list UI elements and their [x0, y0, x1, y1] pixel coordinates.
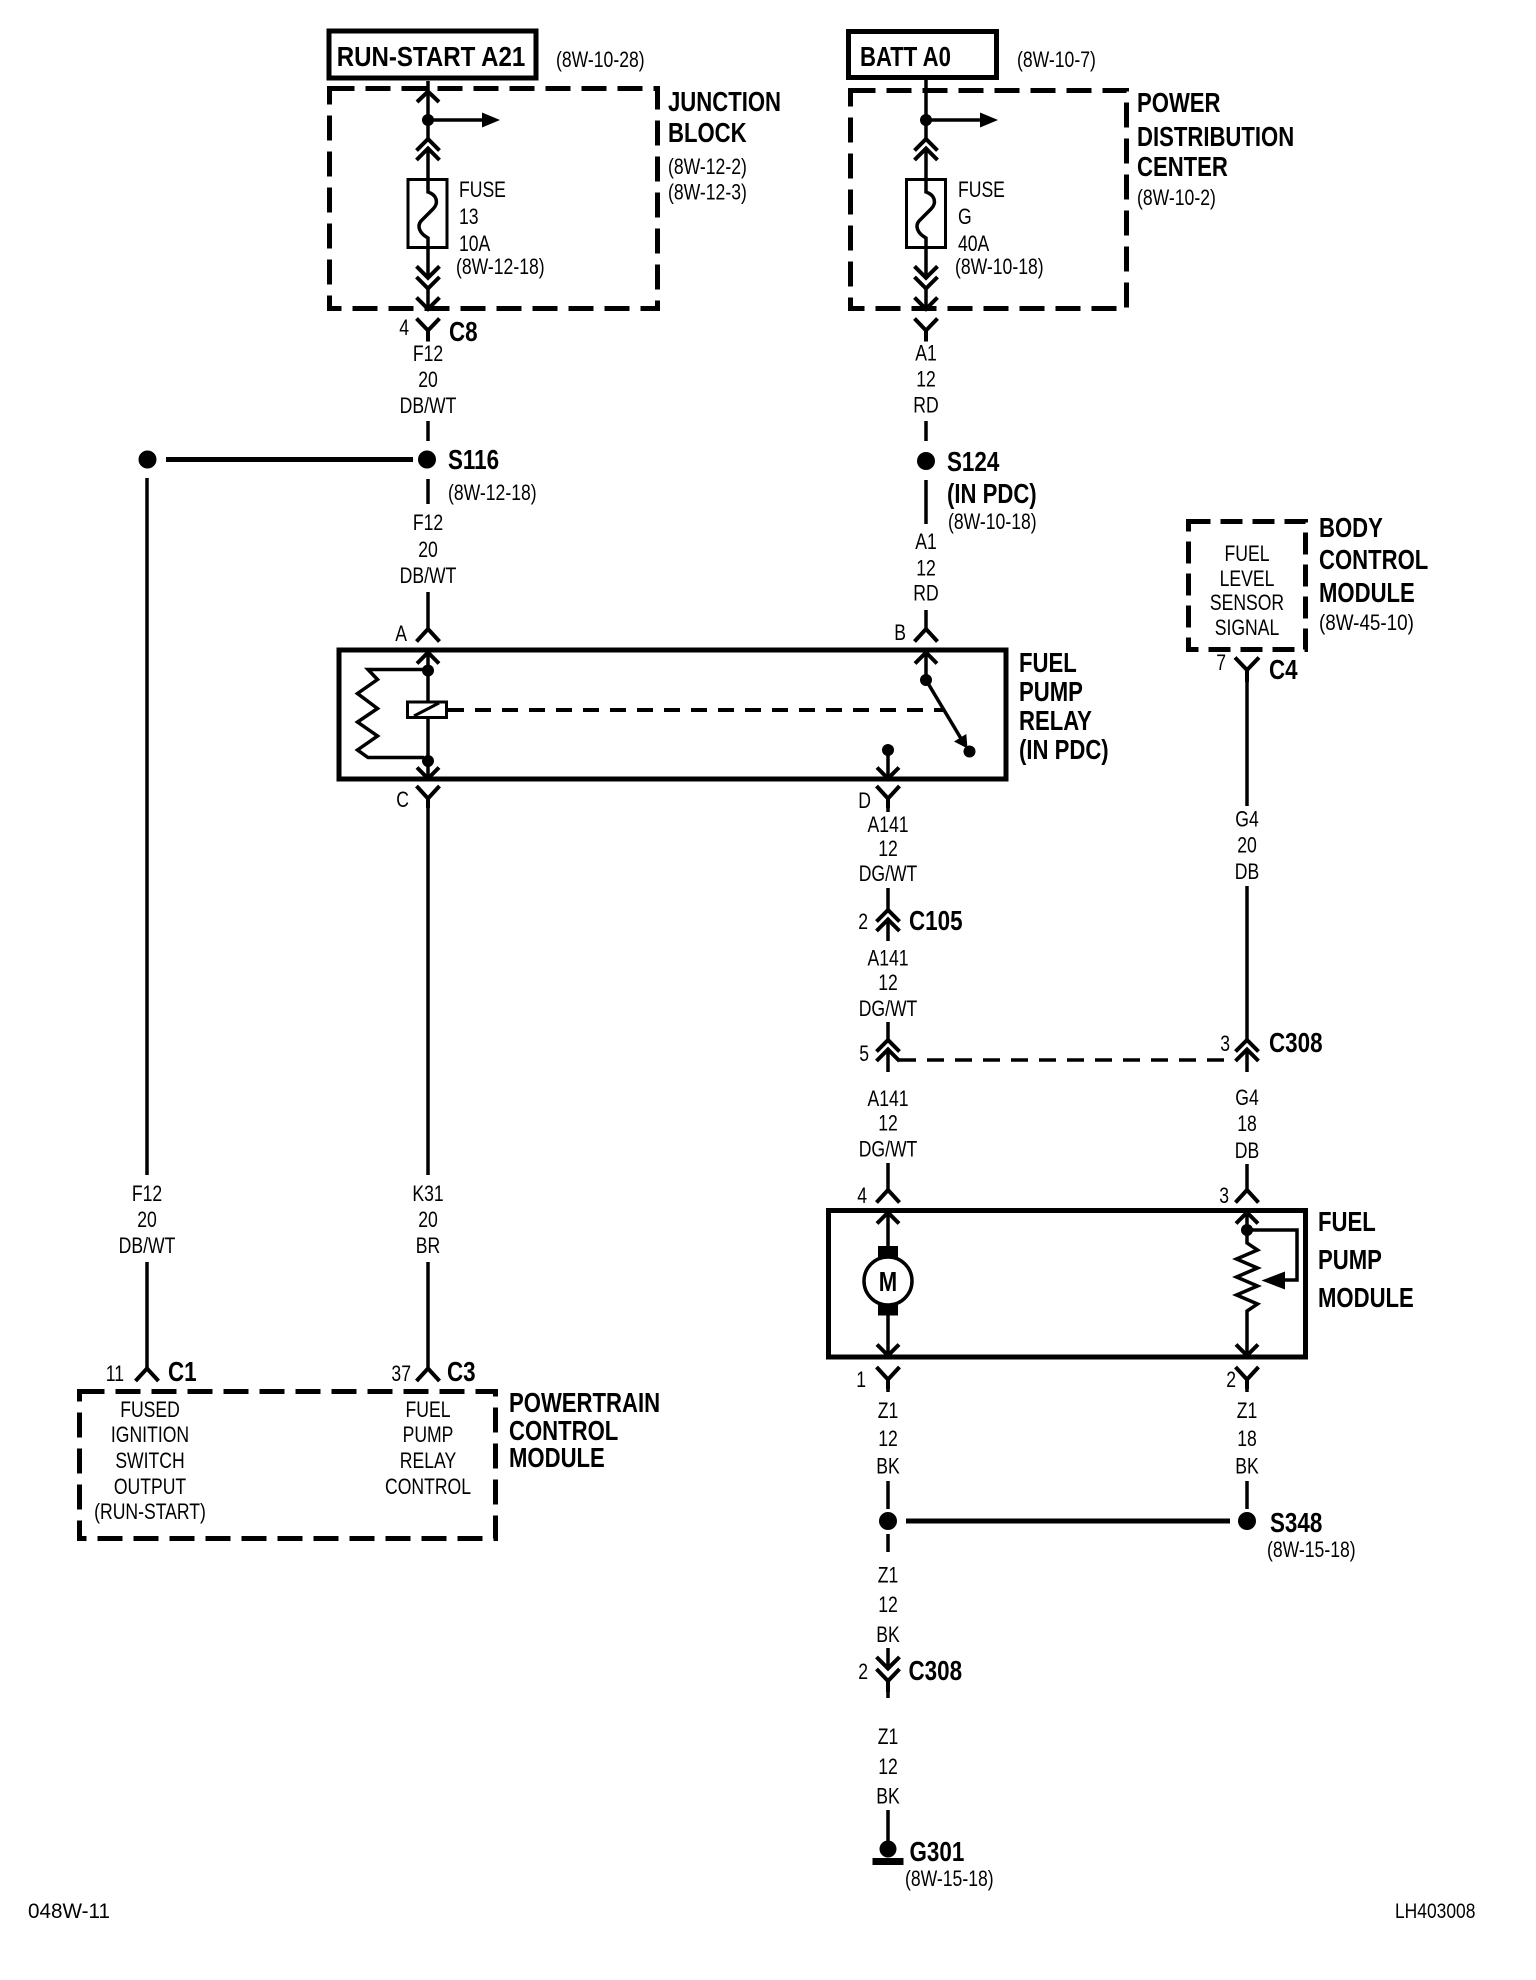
- fuel level sensor node dot: [1241, 1224, 1253, 1236]
- wire connector 5 to FPM pin 4: [886, 1065, 890, 1190]
- svg-text:DG/WT: DG/WT: [859, 1138, 918, 1162]
- connector 2 C308 inline: [877, 1657, 900, 1692]
- svg-text:A1: A1: [915, 530, 937, 554]
- svg-text:2: 2: [858, 1660, 868, 1684]
- branch arrow right (PDC): [926, 113, 998, 128]
- svg-text:Z1: Z1: [878, 1399, 899, 1423]
- connector 3 C308 inline: [1236, 1040, 1259, 1065]
- svg-text:20: 20: [418, 368, 438, 392]
- svg-text:FUEL: FUEL: [1019, 648, 1077, 679]
- svg-text:RELAY: RELAY: [400, 1449, 456, 1473]
- svg-text:FUSE: FUSE: [459, 178, 506, 202]
- splice S124 dot: [917, 452, 935, 470]
- wire C308 to G301: [886, 1692, 890, 1841]
- svg-text:FUSED: FUSED: [120, 1398, 180, 1422]
- pin 7 of C4: [1216, 651, 1226, 675]
- wire label K31 20 BR: [412, 1182, 443, 1258]
- wire fuse G to PDC exit: [924, 248, 928, 309]
- male chevron into junction block: [417, 92, 439, 103]
- connector name C4: [1269, 655, 1298, 686]
- svg-text:37: 37: [391, 1362, 411, 1386]
- svg-text:11: 11: [106, 1362, 124, 1386]
- svg-text:C8: C8: [449, 317, 478, 348]
- wire label A1 12 RD (lower): [913, 530, 938, 606]
- svg-text:A141: A141: [867, 1087, 908, 1111]
- fuel level sensor resistor: [1237, 1230, 1258, 1317]
- wire C4 to C308: [1245, 682, 1249, 1040]
- power distribution center box: [851, 91, 1127, 309]
- fuse 13: [408, 180, 447, 249]
- wire S124 to relay pin B: [924, 480, 928, 629]
- svg-text:(8W-45-10): (8W-45-10): [1319, 611, 1414, 636]
- connector box BATT A0: [849, 32, 997, 78]
- svg-text:G4: G4: [1235, 1086, 1258, 1110]
- wire label F12 20 DB/WT (upper): [400, 342, 457, 418]
- wire label Z1 12 BK (2): [876, 1564, 900, 1648]
- fuse G labels: [955, 178, 1044, 279]
- wire label G4 18 DB: [1235, 1086, 1259, 1163]
- svg-text:S116: S116: [448, 445, 499, 476]
- wire FPM 2 to S348: [1245, 1389, 1249, 1509]
- splice S116: [139, 451, 437, 469]
- svg-text:C105: C105: [909, 906, 963, 937]
- connector C8 female fork: [417, 319, 440, 342]
- pin 2 label (FPM): [1226, 1368, 1236, 1392]
- svg-text:BK: BK: [876, 1785, 900, 1809]
- pin 2 of C308 (bottom): [858, 1660, 868, 1684]
- svg-text:A: A: [395, 622, 407, 646]
- svg-text:M: M: [879, 1267, 897, 1298]
- connector name C3: [447, 1357, 476, 1388]
- svg-text:12: 12: [916, 557, 936, 581]
- relay pin C female fork: [417, 786, 440, 808]
- svg-text:F12: F12: [132, 1182, 162, 1206]
- svg-text:(8W-15-18): (8W-15-18): [905, 1867, 994, 1891]
- svg-text:(8W-12-18): (8W-12-18): [456, 255, 545, 279]
- svg-text:RELAY: RELAY: [1019, 706, 1092, 737]
- svg-text:Z1: Z1: [1237, 1399, 1258, 1423]
- pin 37 of C3: [391, 1362, 411, 1386]
- pin 4 label (FPM): [857, 1184, 867, 1208]
- svg-text:20: 20: [418, 1208, 438, 1232]
- relay switch contact dot: [964, 746, 976, 758]
- svg-text:PUMP: PUMP: [403, 1423, 454, 1447]
- svg-text:SWITCH: SWITCH: [115, 1449, 184, 1473]
- connector C4 female fork: [1235, 658, 1259, 683]
- fuse 13 labels: [456, 178, 545, 279]
- relay control dashed line: [448, 708, 943, 712]
- svg-text:RD: RD: [913, 394, 938, 418]
- svg-text:DB/WT: DB/WT: [400, 394, 457, 418]
- header POWER DISTRIBUTION CENTER: [1137, 88, 1294, 211]
- svg-text:10A: 10A: [459, 232, 491, 256]
- svg-text:C308: C308: [1269, 1028, 1323, 1059]
- wire label A1 12 RD (upper): [913, 342, 938, 418]
- svg-text:3: 3: [1219, 1184, 1229, 1208]
- svg-text:5: 5: [859, 1042, 869, 1066]
- wire label Z1 18 BK: [1235, 1399, 1259, 1479]
- svg-text:(8W-15-18): (8W-15-18): [1267, 1538, 1356, 1562]
- connector C1 female fork: [136, 1369, 159, 1382]
- relay pin B male chevron: [915, 653, 937, 676]
- svg-text:C3: C3: [447, 1357, 476, 1388]
- connector C105 inline: [877, 910, 900, 935]
- wire label F12 20 DB/WT (lower): [400, 511, 457, 588]
- wire S116 to C1: [145, 478, 149, 1369]
- svg-text:(8W-10-18): (8W-10-18): [955, 255, 1044, 279]
- header BODY CONTROL MODULE: [1319, 513, 1428, 636]
- header FUEL PUMP MODULE: [1318, 1207, 1414, 1314]
- svg-text:12: 12: [878, 1427, 898, 1451]
- motor M1 bottom brush: [878, 1304, 898, 1316]
- connector name C308 (mid): [1269, 1028, 1323, 1059]
- svg-text:Z1: Z1: [878, 1564, 899, 1588]
- pin A label: [395, 622, 407, 646]
- svg-text:F12: F12: [413, 342, 443, 366]
- wire A21 to fuse 13: [426, 81, 430, 181]
- wire S348 down: [886, 1534, 890, 1666]
- svg-text:S348: S348: [1270, 1508, 1322, 1539]
- wire label A141 12 DG/WT (3): [859, 1087, 918, 1162]
- relay pin D male chevron: [877, 753, 899, 779]
- wire S116 to relay pin A: [426, 479, 430, 629]
- relay coil bottom node dot: [422, 755, 434, 767]
- svg-text:20: 20: [1237, 834, 1257, 858]
- label S348: [1267, 1508, 1356, 1563]
- svg-text:A141: A141: [867, 947, 908, 971]
- svg-text:IGNITION: IGNITION: [111, 1423, 189, 1447]
- header JUNCTION BLOCK: [668, 87, 781, 205]
- svg-text:1: 1: [856, 1368, 866, 1392]
- svg-text:RUN-START A21: RUN-START A21: [337, 40, 526, 72]
- svg-text:PUMP: PUMP: [1318, 1245, 1382, 1276]
- header FUEL PUMP RELAY (IN PDC): [1019, 648, 1109, 766]
- wire label Z1 12 BK (3): [876, 1725, 900, 1809]
- label (8W-10-7): [1017, 48, 1096, 72]
- svg-text:B: B: [894, 621, 906, 645]
- junction block box: [330, 89, 658, 309]
- pin 3 of C308: [1220, 1032, 1230, 1056]
- svg-text:(8W-12-3): (8W-12-3): [668, 181, 747, 205]
- relay switch pivot dot: [920, 674, 932, 686]
- pin 4 of C8: [399, 316, 409, 340]
- relay coil symbol: [408, 702, 447, 718]
- wire BATT A0 to fuse G: [924, 80, 928, 181]
- connector name C105: [909, 906, 963, 937]
- svg-text:18: 18: [1237, 1427, 1257, 1451]
- svg-text:DG/WT: DG/WT: [859, 997, 918, 1021]
- PDC exit female fork: [915, 319, 938, 342]
- relay pin A female fork: [417, 629, 440, 642]
- svg-text:BR: BR: [416, 1234, 440, 1258]
- connector name C8: [449, 317, 478, 348]
- svg-text:2: 2: [1226, 1368, 1236, 1392]
- pin 11 of C1: [106, 1362, 124, 1386]
- svg-text:K31: K31: [412, 1182, 443, 1206]
- relay pin C male chevron: [417, 764, 439, 779]
- relay pin D female fork: [877, 786, 900, 808]
- svg-text:RD: RD: [913, 582, 938, 606]
- wire C8 to S116: [426, 421, 430, 441]
- pin D label: [858, 789, 871, 813]
- motor M1 label: [879, 1267, 897, 1298]
- svg-text:OUTPUT: OUTPUT: [114, 1475, 186, 1499]
- svg-text:DB: DB: [1235, 860, 1259, 884]
- wire PDC to S124: [924, 421, 928, 441]
- wire label Z1 12 BK (1): [876, 1399, 900, 1479]
- label S116: [448, 445, 537, 506]
- svg-text:12: 12: [916, 368, 936, 392]
- header POWERTRAIN CONTROL MODULE: [509, 1388, 660, 1474]
- svg-text:JUNCTION: JUNCTION: [668, 87, 781, 118]
- label (8W-10-28): [556, 48, 645, 72]
- relay pin B female fork: [915, 629, 938, 642]
- svg-text:C: C: [396, 788, 409, 812]
- svg-text:20: 20: [137, 1208, 157, 1232]
- wire relay D to C105: [886, 808, 890, 910]
- svg-text:20: 20: [418, 538, 438, 562]
- junction node dot (PDC): [920, 114, 932, 126]
- svg-text:12: 12: [878, 1593, 898, 1617]
- svg-text:DB: DB: [1235, 1139, 1259, 1163]
- FPM pin 4 male chevron: [877, 1213, 899, 1248]
- svg-text:MODULE: MODULE: [509, 1443, 605, 1474]
- svg-text:(8W-10-2): (8W-10-2): [1137, 186, 1216, 210]
- dashed link C308: [899, 1058, 1225, 1062]
- svg-text:(8W-12-2): (8W-12-2): [668, 155, 747, 179]
- fuel level sensor wiper arrow: [1247, 1230, 1297, 1290]
- connector C8 male chevron: [417, 298, 440, 310]
- svg-text:13: 13: [459, 205, 479, 229]
- svg-text:A1: A1: [915, 342, 937, 366]
- inline connector above fuse 13: [417, 139, 440, 160]
- svg-text:BK: BK: [876, 1623, 900, 1647]
- svg-text:A141: A141: [867, 813, 908, 837]
- svg-text:12: 12: [878, 1755, 898, 1779]
- wire relay C to C3: [426, 808, 430, 1369]
- svg-text:G: G: [958, 205, 972, 229]
- wire motor to FPM pin 1: [877, 1316, 899, 1356]
- inline connector below fuse G: [915, 266, 938, 288]
- svg-text:(8W-12-18): (8W-12-18): [448, 481, 537, 505]
- svg-text:SENSOR: SENSOR: [1210, 591, 1284, 615]
- svg-text:C1: C1: [168, 1357, 197, 1388]
- splice S348: [879, 1512, 1256, 1530]
- motor M1 top brush: [878, 1246, 898, 1259]
- svg-text:(8W-10-18): (8W-10-18): [948, 510, 1037, 534]
- svg-text:7: 7: [1216, 651, 1226, 675]
- connector C3 female fork: [417, 1369, 440, 1382]
- svg-text:DISTRIBUTION: DISTRIBUTION: [1137, 122, 1294, 153]
- svg-text:LEVEL: LEVEL: [1220, 567, 1275, 591]
- wire label A141 12 DG/WT (1): [859, 813, 918, 886]
- svg-text:40A: 40A: [958, 232, 990, 256]
- relay switch arm: [926, 680, 968, 749]
- PDC exit male chevron: [915, 298, 938, 310]
- wire C308 to FPM pin 3: [1245, 1065, 1249, 1190]
- PCM pin function FUSED IGNITION SWITCH OUTPUT (RUN-START): [94, 1398, 206, 1524]
- svg-text:S124: S124: [947, 447, 999, 478]
- svg-text:2: 2: [858, 910, 868, 934]
- PCM pin function FUEL PUMP RELAY CONTROL: [385, 1398, 471, 1499]
- relay coil top node dot: [422, 665, 434, 677]
- relay pin A male chevron: [417, 653, 439, 667]
- svg-text:SIGNAL: SIGNAL: [1215, 616, 1280, 640]
- svg-text:(8W-10-28): (8W-10-28): [556, 48, 645, 72]
- svg-text:G4: G4: [1235, 808, 1258, 832]
- ground G301 symbol: [873, 1841, 904, 1866]
- powertrain control module box: [80, 1392, 496, 1539]
- svg-text:DG/WT: DG/WT: [859, 862, 918, 886]
- pin 2 of C105: [858, 910, 868, 934]
- svg-text:048W-11: 048W-11: [28, 1900, 110, 1923]
- pin C label: [396, 788, 409, 812]
- wire FPM 1 to S348: [886, 1389, 890, 1509]
- inline connector above fuse G: [915, 139, 938, 160]
- svg-text:(IN PDC): (IN PDC): [947, 479, 1037, 510]
- svg-text:G301: G301: [910, 1837, 965, 1868]
- connector box RUN-START A21: [329, 31, 536, 78]
- svg-text:POWERTRAIN: POWERTRAIN: [509, 1388, 660, 1419]
- svg-text:3: 3: [1220, 1032, 1230, 1056]
- svg-text:DB/WT: DB/WT: [400, 564, 457, 588]
- svg-text:FUEL: FUEL: [406, 1398, 451, 1422]
- svg-text:18: 18: [1237, 1112, 1257, 1136]
- svg-text:DB/WT: DB/WT: [119, 1234, 176, 1258]
- relay output node dot: [882, 744, 894, 756]
- svg-text:FUEL: FUEL: [1225, 542, 1270, 566]
- wire C105 to connector 5: [886, 935, 890, 1041]
- footer sheet number: [28, 1900, 110, 1923]
- pin 5 of C308: [859, 1042, 869, 1066]
- FPM pin 1 female fork: [877, 1367, 900, 1389]
- relay coil wire: [426, 671, 430, 762]
- svg-text:12: 12: [878, 837, 898, 861]
- svg-text:BK: BK: [1235, 1455, 1259, 1479]
- BCM pin function FUEL LEVEL SENSOR SIGNAL: [1210, 542, 1284, 640]
- wire label G4 20 DB: [1235, 808, 1259, 885]
- svg-text:D: D: [858, 789, 871, 813]
- svg-text:PUMP: PUMP: [1019, 677, 1083, 708]
- connector name C1: [168, 1357, 197, 1388]
- inline connector below fuse 13: [417, 266, 440, 288]
- svg-text:BK: BK: [876, 1455, 900, 1479]
- FPM pin 3 female fork: [1236, 1190, 1259, 1203]
- svg-text:(IN PDC): (IN PDC): [1019, 735, 1109, 766]
- pin 1 label: [856, 1368, 866, 1392]
- svg-text:C308: C308: [909, 1656, 963, 1687]
- body control module box: [1189, 522, 1306, 650]
- svg-text:4: 4: [399, 316, 409, 340]
- svg-text:MODULE: MODULE: [1318, 1283, 1414, 1314]
- svg-text:(RUN-START): (RUN-START): [94, 1500, 206, 1524]
- fuel pump module box: [829, 1211, 1306, 1358]
- svg-text:CONTROL: CONTROL: [385, 1475, 471, 1499]
- fuel pump relay box: [339, 650, 1006, 779]
- wire label A141 12 DG/WT (2): [859, 947, 918, 1022]
- FPM pin 3 male chevron: [1236, 1213, 1258, 1231]
- motor M1 body: [864, 1257, 912, 1305]
- connector name C308 (bottom): [909, 1656, 963, 1687]
- svg-text:POWER: POWER: [1137, 88, 1221, 119]
- footer drawing number: [1395, 1901, 1475, 1924]
- junction node dot: [422, 114, 434, 126]
- svg-text:CENTER: CENTER: [1137, 152, 1228, 183]
- svg-text:(8W-10-7): (8W-10-7): [1017, 48, 1096, 72]
- label G301: [905, 1837, 994, 1892]
- svg-text:FUSE: FUSE: [958, 178, 1005, 202]
- svg-text:BLOCK: BLOCK: [668, 118, 747, 149]
- svg-text:LH403008: LH403008: [1395, 1901, 1475, 1924]
- svg-text:12: 12: [878, 1112, 898, 1136]
- relay coil resistor: [358, 670, 425, 758]
- svg-text:FUEL: FUEL: [1318, 1207, 1376, 1238]
- svg-text:BATT A0: BATT A0: [860, 42, 951, 73]
- svg-text:BODY: BODY: [1319, 513, 1383, 544]
- wire sensor to FPM pin 2: [1236, 1317, 1258, 1356]
- svg-text:12: 12: [878, 971, 898, 995]
- wire fuse 13 to C8: [426, 248, 430, 309]
- svg-text:C4: C4: [1269, 655, 1298, 686]
- svg-text:4: 4: [857, 1184, 867, 1208]
- branch arrow right: [428, 113, 500, 128]
- svg-text:CONTROL: CONTROL: [1319, 545, 1428, 576]
- fuse G: [907, 180, 946, 249]
- svg-text:MODULE: MODULE: [1319, 578, 1415, 609]
- pin 3 label (FPM): [1219, 1184, 1229, 1208]
- pin B label: [894, 621, 906, 645]
- FPM pin 4 female fork: [877, 1190, 900, 1203]
- label S124: [947, 447, 1037, 535]
- svg-text:F12: F12: [413, 511, 443, 535]
- wire label F12 20 DB/WT (left rail): [119, 1182, 176, 1258]
- FPM pin 2 female fork: [1236, 1367, 1259, 1389]
- connector 5 C308 inline: [877, 1040, 900, 1065]
- svg-text:Z1: Z1: [878, 1725, 899, 1749]
